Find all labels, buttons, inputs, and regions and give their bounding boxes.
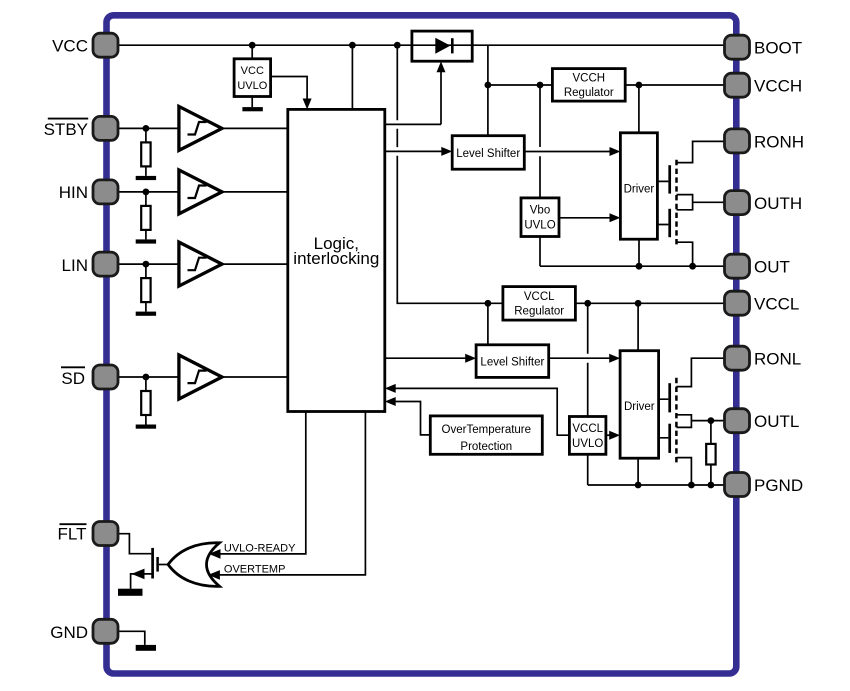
block VCCL UVLO [569,417,606,455]
wire logic to level shifter H (arrow) [385,147,452,156]
wire Vbo UVLO to driver H (arrow) [559,213,620,222]
svg-text:HIN: HIN [59,183,88,202]
wire level shifter L to driver L (arrow) [549,354,620,363]
block Level Shifter H [452,136,524,170]
transistor L channel (dashed) [675,378,678,466]
ground under VCC UVLO [242,97,262,112]
wire through diode box [412,44,472,46]
svg-text:interlocking: interlocking [293,249,379,268]
ground HIN resistor [136,239,156,243]
wire SD input [118,374,179,381]
svg-text:RONH: RONH [754,132,804,151]
pin BOOT [725,35,750,59]
svg-text:OUTH: OUTH [754,194,802,213]
svg-text:UVLO: UVLO [572,438,603,450]
arrowhead UVLO-READY input [209,549,221,559]
transistor pair L gate stubs [659,399,669,438]
svg-text:LIN: LIN [62,256,88,275]
wire PGND rail [588,482,726,489]
wire VCCH regulator input [488,82,553,89]
ground fault transistor [118,589,143,596]
transistor Q fault gate bar [156,557,159,572]
ground GND pin [136,645,156,651]
wire fault transistor source [131,569,153,589]
pin SD [93,365,118,389]
svg-text:UVLO: UVLO [524,219,555,231]
svg-text:GND: GND [50,623,88,642]
resistor SD pulldown [141,377,150,425]
pin HIN [93,180,118,204]
svg-text:OUT: OUT [754,258,790,277]
resistor ROUTL [706,421,715,485]
wire VCC UVLO output to logic (arrow down) [271,77,312,110]
svg-text:SD: SD [61,369,85,388]
wire logic to level shifter L (arrow) [385,354,476,363]
svg-text:VCCL: VCCL [524,291,555,303]
wire Vbo UVLO bottom to OUT rail [539,237,541,267]
wire RONL drain connection [676,358,724,386]
wire LIN input [118,261,179,268]
wire PGND source connection [676,458,691,485]
wire Vbo UVLO input stem [539,85,541,198]
svg-text:Regulator: Regulator [514,305,564,317]
wire VCCH regulator to VCCH pin [625,82,726,89]
diode box [412,31,472,61]
wire HIN input [118,189,179,196]
wire OUTH midpoint bracket [677,195,725,210]
wire BOOT rail to level shifter supply [485,45,492,136]
svg-text:RONL: RONL [754,350,801,369]
wire VCC rail top [117,42,727,49]
wire driver L supply stem [637,303,639,350]
pin RONL [725,346,750,370]
svg-text:VCC: VCC [241,65,264,77]
block Driver L [620,351,659,459]
svg-text:BOOT: BOOT [754,39,802,58]
wire VCCL regulator output rail [575,300,726,307]
wire STBY to logic [222,127,288,129]
pin PGND [725,473,750,497]
transistor H high gate bar [668,165,671,193]
schmitt trigger LIN [179,242,222,286]
block VCC UVLO [234,59,271,97]
wire GND to ground [118,631,145,645]
pin VCC [93,33,118,57]
resistor LIN pulldown [141,264,150,312]
pin VCCL [725,291,750,315]
schmitt trigger STBY [179,106,222,150]
wire driver L bottom stem [637,458,639,485]
svg-text:Driver: Driver [624,183,655,195]
wire VCCL UVLO bottom to PGND rail [587,454,589,485]
svg-text:VCC: VCC [52,37,88,56]
svg-text:Regulator: Regulator [564,87,614,99]
resistor STBY pulldown [141,128,150,176]
transistor pair H gate stubs [657,181,668,224]
block Logic, interlocking [288,109,385,411]
wire level shifter H to driver H (arrow) [524,147,620,156]
svg-text:Level Shifter: Level Shifter [456,148,520,160]
wire logic to bootstrap diode control (arrow up) [385,61,446,124]
wire overtemp to logic (arrow) [385,397,431,435]
pin GND [93,619,118,643]
svg-text:UVLO-READY: UVLO-READY [224,543,296,555]
wire driver H supply stem [638,85,640,133]
wire OR output to gate [159,564,168,566]
wire logic UVLO-READY output [214,412,306,554]
IC boundary [107,15,737,673]
diode D1 [435,38,452,54]
block VCCL Regulator [503,287,576,321]
wire FLT to fault transistor drain [118,534,151,554]
wire logic OVERTEMP output [214,412,365,575]
svg-text:VCCL: VCCL [572,423,603,435]
block Driver H [620,133,657,239]
wire OUTL midpoint bracket [676,415,724,428]
wire driver H bottom stem [638,239,640,266]
resistor HIN pulldown [141,192,150,240]
svg-text:OverTemperature: OverTemperature [442,424,531,436]
svg-text:UVLO: UVLO [237,80,267,92]
svg-text:Protection: Protection [460,441,512,453]
svg-text:PGND: PGND [754,476,803,495]
pin label FLT [58,524,87,543]
wire STBY input [118,125,179,132]
transistor H channel (dashed) [675,160,678,246]
wire SD to logic [222,376,288,378]
arrowhead OVERTEMP input [208,570,220,580]
svg-text:VCCH: VCCH [573,73,606,85]
wire VCCL UVLO input stem [587,303,589,416]
block OverTemperature Protection [430,416,542,454]
pin LIN [93,252,118,276]
OR gate (mirrored) [168,543,219,587]
wire VCCL UVLO to logic (arrow) [385,384,570,435]
wire VCC rail to logic top [351,45,353,109]
svg-text:VCCH: VCCH [754,77,802,96]
pin OUTL [725,409,750,433]
svg-text:VCCL: VCCL [754,295,799,314]
pin OUTH [725,191,750,215]
pin label STBY [44,119,89,140]
svg-text:OUTL: OUTL [754,412,799,431]
pin RONH [725,129,750,153]
wire VCCL rail to level shifter L supply [487,303,489,345]
ground LIN resistor [136,312,156,316]
svg-text:OVERTEMP: OVERTEMP [224,564,286,576]
transistor L low gate bar [668,424,671,453]
ground STBY resistor [136,176,156,180]
block Vbo UVLO [521,198,559,237]
pin STBY [93,116,118,140]
wire VCC UVLO input stem [251,45,253,59]
block VCCH Regulator [552,69,625,102]
wire OUT source connection [677,242,693,266]
svg-text:FLT: FLT [58,524,87,543]
wire VCC rail down to VCCL regulator [397,45,503,306]
wire LIN to logic [222,263,288,265]
schmitt trigger HIN [179,170,222,214]
svg-text:Level Shifter: Level Shifter [480,356,544,368]
wire VCCL UVLO to driver L (arrow) [606,431,620,440]
pin label SD [61,367,85,388]
wire OUT rail [540,263,726,270]
svg-text:Vbo: Vbo [530,205,550,217]
schmitt trigger SD [179,355,222,399]
wire RONH drain connection [677,141,725,162]
svg-text:STBY: STBY [44,120,88,139]
transistor L high gate bar [668,383,671,412]
ground SD resistor [136,425,156,429]
svg-text:Driver: Driver [624,401,655,413]
transistor H low gate bar [668,209,671,237]
transistor Q fault channel bar [151,548,154,579]
pin OUT [725,254,750,278]
wire HIN to logic [222,191,288,193]
pin VCCH [725,73,750,97]
block Level Shifter L [476,345,549,378]
pin FLT [93,522,118,546]
